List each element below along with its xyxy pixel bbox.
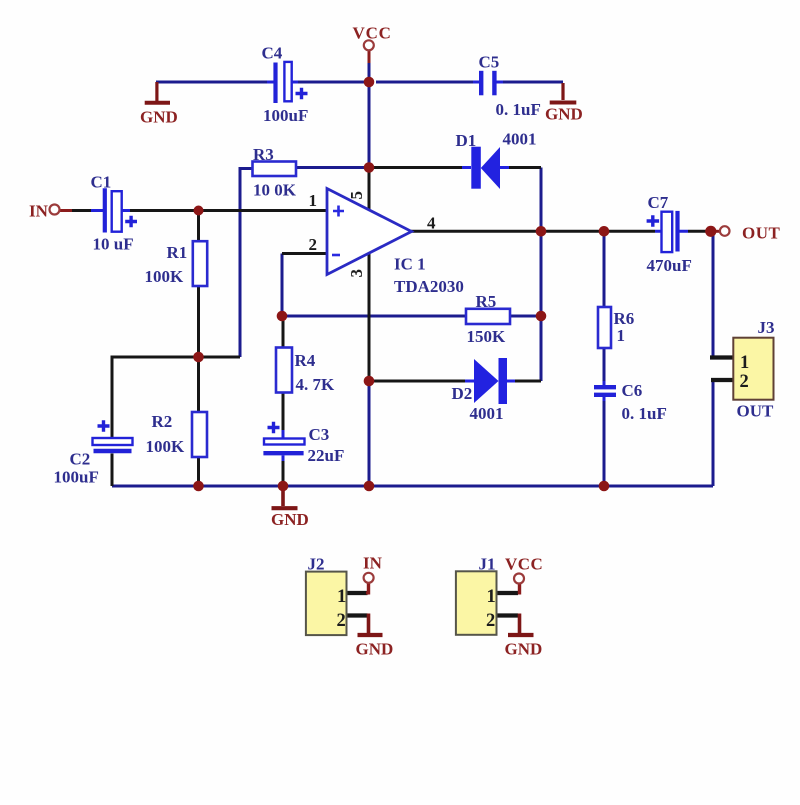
svg-text:100uF: 100uF <box>263 106 308 125</box>
svg-text:VCC: VCC <box>505 555 543 574</box>
svg-text:GND: GND <box>545 105 583 124</box>
svg-text:OUT: OUT <box>742 224 781 243</box>
svg-text:4. 7K: 4. 7K <box>296 375 336 394</box>
svg-text:1: 1 <box>617 326 626 345</box>
svg-text:4: 4 <box>427 214 436 233</box>
svg-text:1: 1 <box>487 587 496 607</box>
svg-text:100uF: 100uF <box>54 468 99 487</box>
svg-text:2: 2 <box>740 372 749 392</box>
svg-text:IN: IN <box>29 202 49 221</box>
svg-text:1: 1 <box>309 191 318 210</box>
svg-text:22uF: 22uF <box>308 446 345 465</box>
svg-text:IC 1: IC 1 <box>394 255 426 274</box>
svg-text:R1: R1 <box>167 243 188 262</box>
svg-text:1: 1 <box>740 353 749 373</box>
svg-text:C6: C6 <box>622 381 643 400</box>
svg-text:4001: 4001 <box>470 404 504 423</box>
svg-text:R5: R5 <box>476 292 497 311</box>
svg-text:10 0K: 10 0K <box>253 181 297 200</box>
svg-text:GND: GND <box>505 640 543 659</box>
svg-text:R3: R3 <box>253 145 274 164</box>
svg-text:J2: J2 <box>308 555 325 574</box>
svg-text:0. 1uF: 0. 1uF <box>622 404 667 423</box>
svg-text:C3: C3 <box>309 425 330 444</box>
svg-text:IN: IN <box>363 554 383 573</box>
svg-text:GND: GND <box>140 107 178 126</box>
svg-text:GND: GND <box>271 510 309 529</box>
svg-text:2: 2 <box>486 611 495 631</box>
svg-text:5: 5 <box>347 191 366 200</box>
svg-text:D1: D1 <box>456 131 477 150</box>
svg-text:OUT: OUT <box>737 402 775 421</box>
svg-text:4001: 4001 <box>503 130 537 149</box>
svg-text:100K: 100K <box>146 437 186 456</box>
svg-text:J1: J1 <box>479 555 496 574</box>
svg-text:100K: 100K <box>145 267 185 286</box>
svg-text:C5: C5 <box>479 53 500 72</box>
svg-text:470uF: 470uF <box>647 256 692 275</box>
svg-text:0. 1uF: 0. 1uF <box>496 100 541 119</box>
svg-text:C2: C2 <box>70 450 91 469</box>
svg-text:R4: R4 <box>295 351 316 370</box>
svg-text:3: 3 <box>347 269 366 278</box>
svg-text:10 uF: 10 uF <box>93 235 134 254</box>
svg-text:VCC: VCC <box>353 24 392 43</box>
svg-text:R2: R2 <box>152 412 173 431</box>
svg-text:TDA2030: TDA2030 <box>394 277 464 296</box>
svg-text:D2: D2 <box>452 384 473 403</box>
svg-text:C4: C4 <box>262 44 283 63</box>
svg-text:2: 2 <box>309 235 318 254</box>
svg-text:GND: GND <box>356 639 394 658</box>
svg-text:150K: 150K <box>467 327 507 346</box>
svg-text:2: 2 <box>337 611 346 631</box>
svg-text:C1: C1 <box>91 173 112 192</box>
svg-text:C7: C7 <box>648 193 669 212</box>
svg-text:1: 1 <box>337 587 346 607</box>
svg-text:J3: J3 <box>758 318 775 337</box>
